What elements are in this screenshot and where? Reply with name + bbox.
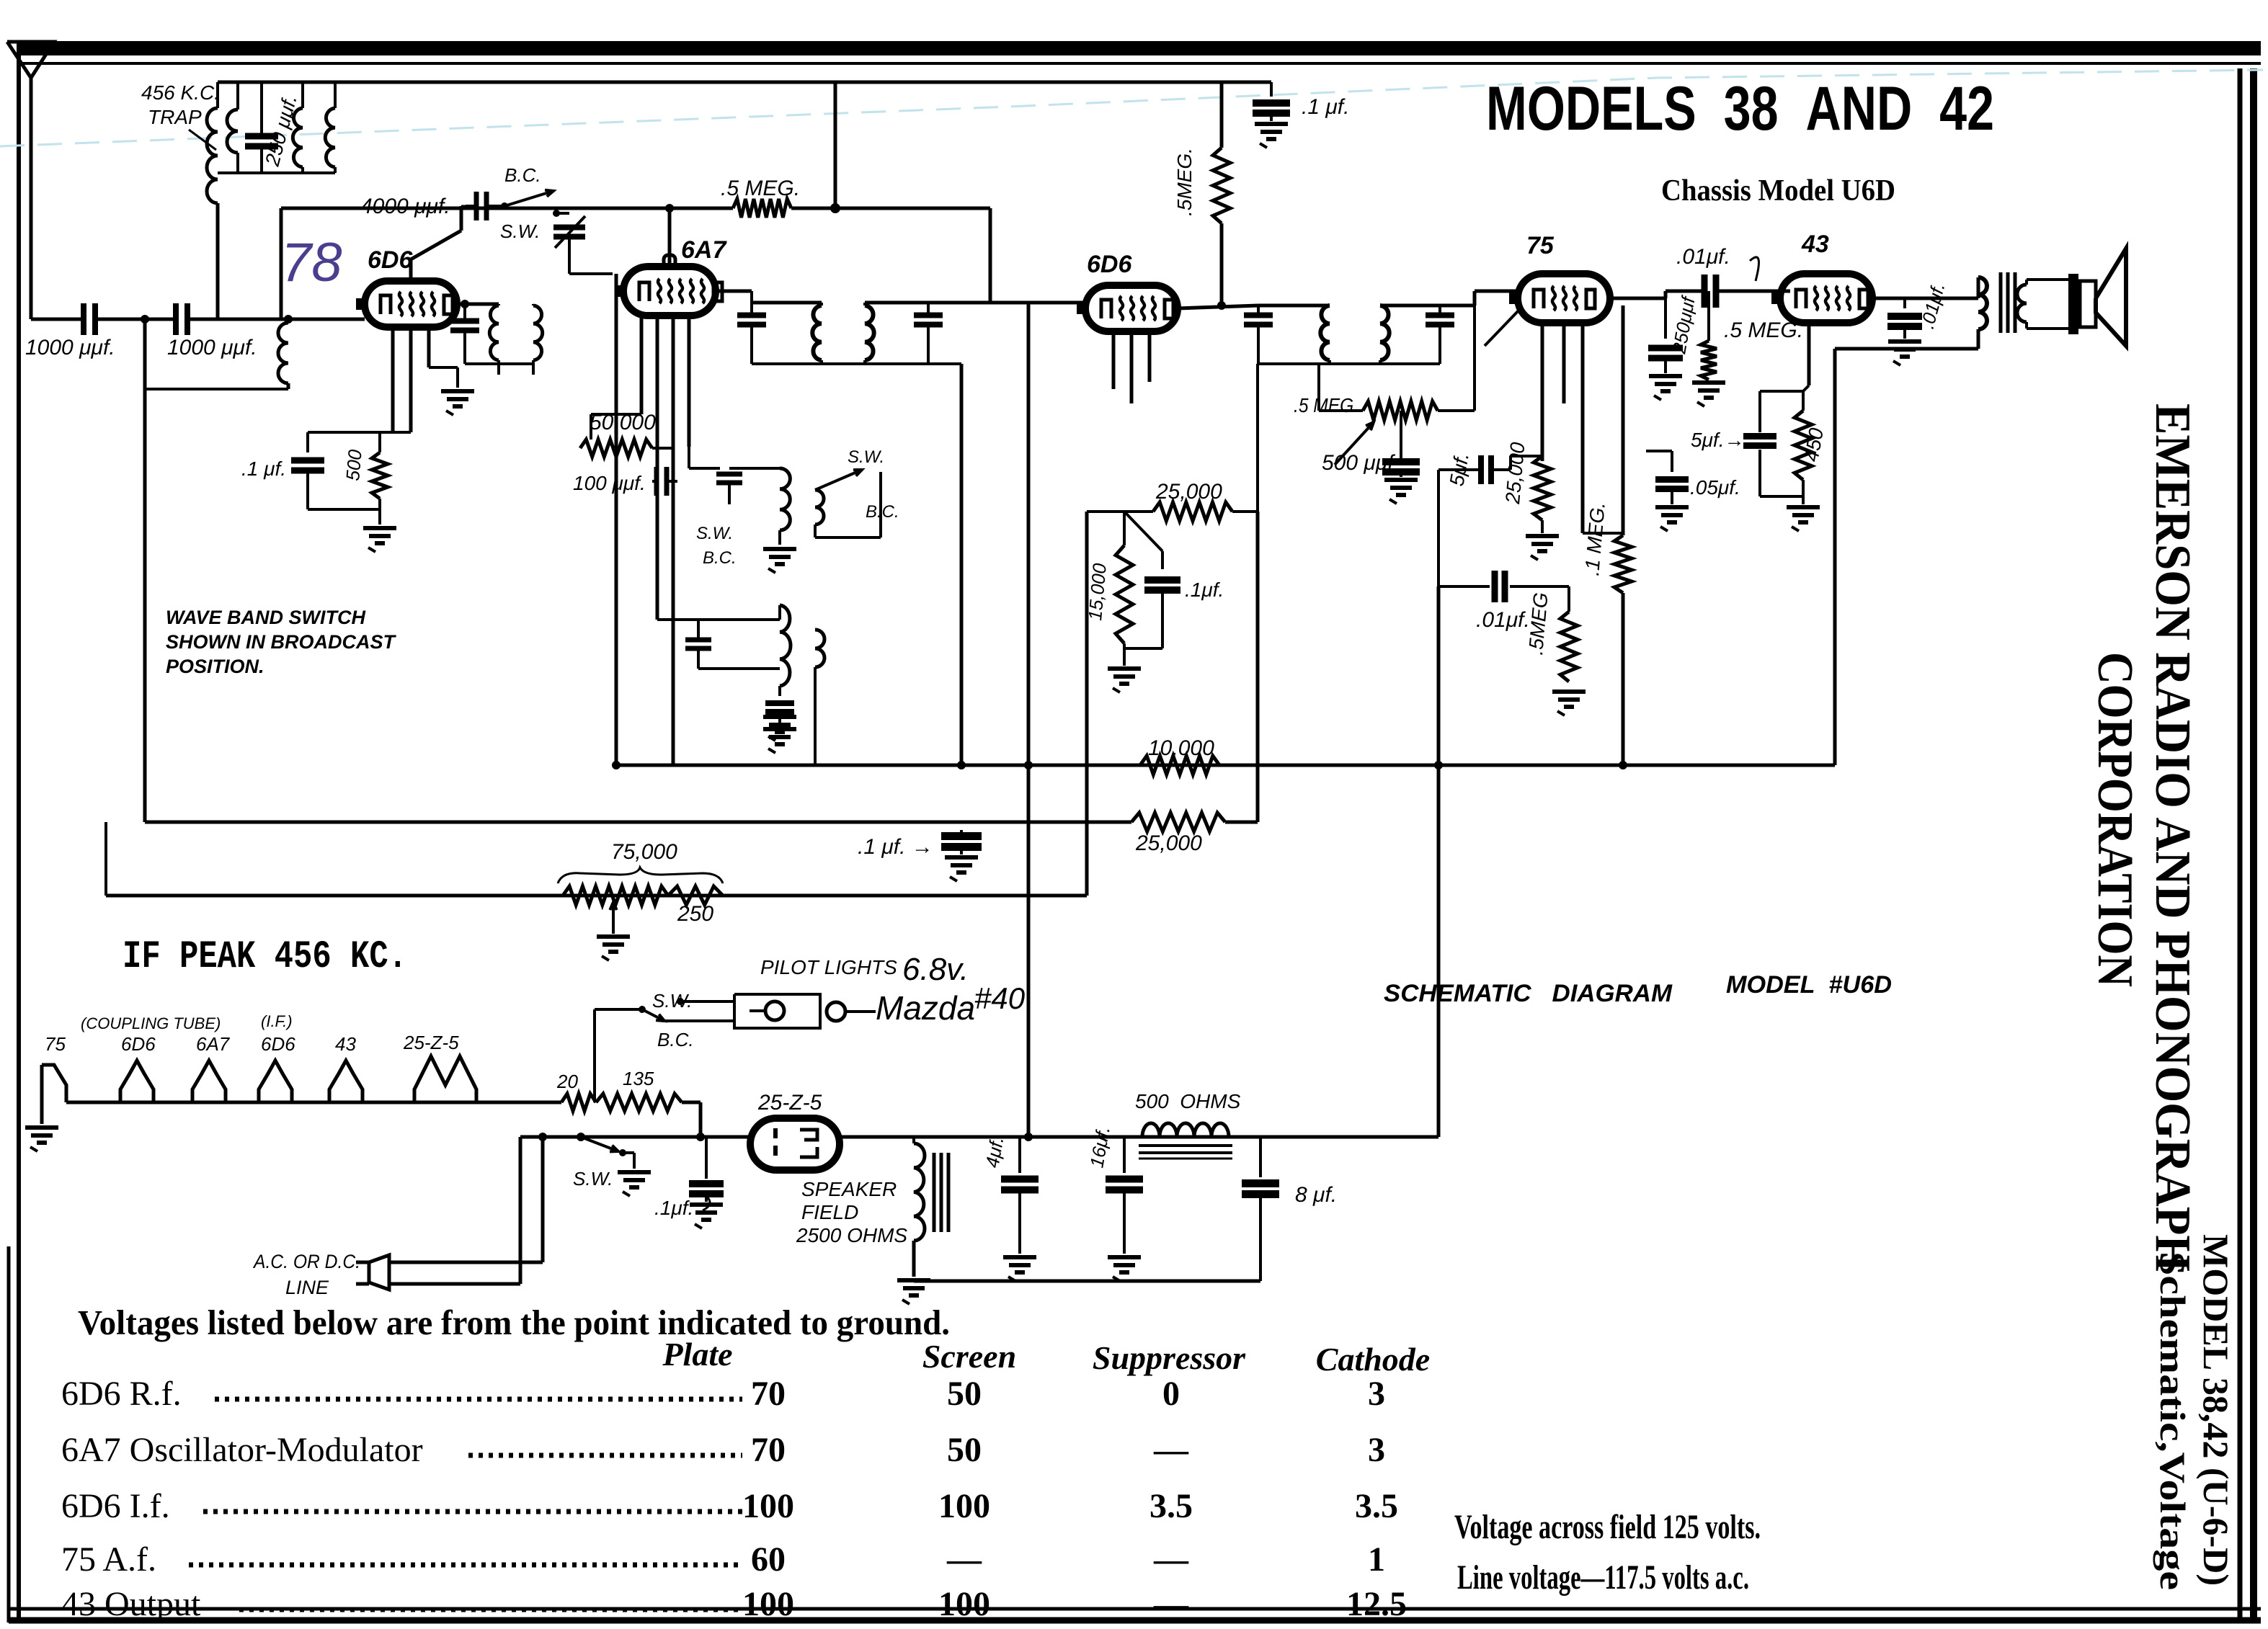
rail A y1062 <box>616 764 1835 767</box>
label .5MEG lower <box>1524 592 1552 656</box>
osc coil B <box>815 490 824 525</box>
svg-text:10,000: 10,000 <box>1148 736 1214 760</box>
resistor 50,000 <box>580 414 673 457</box>
svg-text:456 K.C.: 456 K.C. <box>141 81 220 104</box>
svg-text:70: 70 <box>751 1431 786 1469</box>
svg-text:75: 75 <box>1526 232 1555 259</box>
label 43 <box>1801 231 1829 258</box>
tube 6D6 IF <box>1077 285 1178 331</box>
label A.C. OR D.C. LINE <box>252 1251 360 1298</box>
svg-text:25-Z-5: 25-Z-5 <box>403 1032 459 1053</box>
svg-text:6D6: 6D6 <box>1087 251 1132 278</box>
svg-text:—: — <box>946 1540 982 1579</box>
wire .01 to 43 grid <box>1716 290 1790 293</box>
svg-text:25-Z-5: 25-Z-5 <box>757 1091 822 1115</box>
wire T3 to 75 grid <box>1440 291 1519 305</box>
svg-text:#40: #40 <box>974 981 1026 1015</box>
diode loop lower <box>1438 470 1490 586</box>
wire pot right up <box>1438 305 1475 411</box>
capacitor 100 uuf <box>652 467 677 496</box>
svg-text:250: 250 <box>677 902 713 926</box>
lower osc coil D <box>815 630 824 667</box>
label 250 uuf <box>261 92 301 169</box>
grid cap 4000 uuf label <box>360 195 470 218</box>
osc sw box cap <box>689 447 796 573</box>
vertical drop x1159 <box>834 82 837 208</box>
trap capacitor 250 uuf <box>245 82 278 173</box>
T2 cap right <box>914 303 943 364</box>
pilot switch arm <box>595 1006 734 1021</box>
table heading <box>78 1303 950 1342</box>
svg-text:25,000: 25,000 <box>1135 831 1202 855</box>
svg-text:.1μf.: .1μf. <box>654 1197 693 1219</box>
label PILOT LIGHTS 6.8v <box>760 952 969 987</box>
svg-text:6A7: 6A7 <box>196 1033 231 1055</box>
rail C y1243 <box>106 894 1087 898</box>
svg-text:EMERSON RADIO AND PHONOGRAPH: EMERSON RADIO AND PHONOGRAPH <box>2145 403 2200 1272</box>
trap coil L4 <box>325 82 335 167</box>
svg-text:B.C.: B.C. <box>703 548 737 568</box>
lower osc coil C <box>780 605 791 686</box>
antenna <box>7 42 54 319</box>
450 bypass loop <box>1760 391 1820 531</box>
pot 75000 tap <box>597 902 630 960</box>
svg-text:6A7: 6A7 <box>681 236 727 264</box>
text IF PEAK 456 KC. <box>123 935 407 979</box>
page border left inner lower <box>7 1246 11 1623</box>
svg-text:43 Output: 43 Output <box>61 1585 201 1623</box>
svg-text:MODEL #U6D: MODEL #U6D <box>1726 971 1892 999</box>
osc switch S.W. arrow <box>815 447 884 490</box>
6D6 RF cathode lead <box>380 327 393 432</box>
speaker field coil <box>914 1137 925 1277</box>
choke 500 ohms label <box>1135 1090 1241 1112</box>
label 500 uuf <box>1322 451 1395 475</box>
IF coil T2 primary <box>812 305 822 360</box>
IF coil T3 primary <box>1320 305 1330 360</box>
tube 25-Z-5 <box>750 1118 840 1170</box>
resistor .5MEG lower vertical <box>1552 586 1586 715</box>
filament 25-Z-5 double hump <box>414 1056 476 1102</box>
svg-text:.01μf.: .01μf. <box>1476 608 1530 632</box>
svg-text:MODEL 38,42 (U-6-D): MODEL 38,42 (U-6-D) <box>2196 1234 2236 1586</box>
rail grid y289 <box>281 208 733 319</box>
vertical text CORPORATION <box>2087 652 2143 987</box>
svg-text:100: 100 <box>938 1487 990 1525</box>
svg-text:50: 50 <box>947 1375 982 1413</box>
svg-text:75,000: 75,000 <box>611 840 677 864</box>
bottom rail y1778 <box>914 1280 1260 1283</box>
capacitor .1uf (15k) <box>1124 551 1180 648</box>
table row 6A7 Oscillator-Modulator <box>61 1431 1385 1469</box>
label 43 filament <box>335 1033 356 1055</box>
top rail y114 <box>218 81 1271 84</box>
AC riser x722 <box>519 1137 522 1284</box>
ground mid 1082 <box>763 717 796 741</box>
svg-text:IF PEAK 456 KC.: IF PEAK 456 KC. <box>123 935 407 979</box>
capacitor .1uf (line bypass) <box>689 1137 724 1228</box>
6D6 RF suppressor lead and ground <box>429 327 474 415</box>
wire 75 plate to .01 <box>1610 291 1704 298</box>
trap coil L1 <box>207 82 218 319</box>
wire C2 to 6D6 grid <box>187 318 365 321</box>
output transformer primary <box>1978 277 1987 349</box>
resistor 25000 vertical <box>1526 456 1559 560</box>
svg-text:B.C.: B.C. <box>657 1029 694 1050</box>
6A7 pin leads <box>641 316 689 764</box>
resistor .5 MEG (grid leak) <box>733 199 791 218</box>
svg-text:50,000: 50,000 <box>590 411 656 434</box>
label Mazda #40 <box>876 981 1026 1027</box>
label 6D6 filament b <box>261 1033 295 1055</box>
svg-text:FIELD: FIELD <box>801 1201 858 1223</box>
speaker horn <box>2096 249 2126 346</box>
label B.C. at osc switch <box>866 502 899 522</box>
switch arm B.C./S.W. <box>487 190 560 217</box>
T3 top wires <box>1178 305 1441 308</box>
wire 5uf loop <box>1511 456 1542 470</box>
label 50,000 <box>590 411 656 434</box>
trap coil L3 <box>293 82 303 167</box>
resistor 20 (ballast) <box>561 1094 596 1111</box>
note voltage across field <box>1454 1508 1761 1546</box>
subtitle Chassis Model U6D <box>1661 174 1895 207</box>
resistor 10,000 <box>1140 756 1219 775</box>
node Bline x1427 <box>1024 1133 1033 1141</box>
label .1uf (cathode) <box>241 458 286 480</box>
6D6 IF pin leads <box>1113 331 1149 403</box>
filament 75 hump <box>42 1065 66 1102</box>
T2 trimmer cap left <box>737 291 766 364</box>
svg-text:100: 100 <box>938 1585 990 1623</box>
svg-text:TRAP: TRAP <box>148 106 202 128</box>
resistor 25,000 (on rail B) <box>1131 813 1225 831</box>
page border right double <box>2240 68 2254 1623</box>
svg-text:PILOT LIGHTS: PILOT LIGHTS <box>760 956 897 978</box>
label 6D6 (RF) <box>368 246 413 274</box>
AC plug wire upper <box>389 1261 543 1264</box>
svg-text:—: — <box>1153 1431 1189 1469</box>
osc coil B bottom wire <box>815 472 881 537</box>
T3 cap right <box>1426 305 1454 364</box>
ballast tap riser <box>593 1009 596 1102</box>
coupling coil T1b <box>533 305 543 360</box>
tube 6D6 RF <box>356 281 457 327</box>
label 25,000 (rail B) <box>1135 831 1202 855</box>
svg-text:Line voltage—117.5 volts a.c.: Line voltage—117.5 volts a.c. <box>1457 1558 1749 1597</box>
svg-text:100: 100 <box>742 1487 794 1525</box>
svg-text:POSITION.: POSITION. <box>166 656 264 677</box>
capacitor .01 uf (diode) <box>1495 571 1505 602</box>
wire OT secondary return <box>1835 347 1978 351</box>
speaker driver <box>2027 274 2096 334</box>
pilot bulb 2 <box>827 1002 876 1021</box>
note line voltage <box>1457 1558 1749 1597</box>
svg-text:75 A.f.: 75 A.f. <box>61 1540 156 1579</box>
svg-text:135: 135 <box>623 1068 654 1089</box>
label .1 uf railB <box>858 835 933 859</box>
label 100 uuf <box>573 472 646 494</box>
ground 4uf <box>1003 1257 1036 1281</box>
label 1000 uuf (C1) <box>25 336 115 360</box>
svg-text:CORPORATION: CORPORATION <box>2087 652 2143 987</box>
svg-text:WAVE BAND SWITCH: WAVE BAND SWITCH <box>166 607 365 628</box>
T2 top wires <box>752 303 990 305</box>
svg-text:43: 43 <box>335 1033 356 1055</box>
svg-text:Chassis Model U6D: Chassis Model U6D <box>1661 174 1895 207</box>
svg-text:—: — <box>1153 1585 1189 1623</box>
node railA x1334 <box>957 761 966 769</box>
svg-text:8 μf.: 8 μf. <box>1295 1183 1337 1207</box>
svg-text:MODELS 38 AND 42: MODELS 38 AND 42 <box>1486 74 1994 143</box>
trap coil L2 <box>227 82 238 153</box>
wire T2 to 6D6 IF grid <box>990 301 1085 305</box>
text WAVE BAND SWITCH note <box>166 607 396 677</box>
page border top <box>19 41 2261 63</box>
resistor 135 (ballast) <box>596 1094 682 1111</box>
AC riser x753 <box>538 1133 547 1262</box>
resistor .1 MEG vertical <box>1614 305 1632 765</box>
resistor 450 vertical <box>1795 391 1812 496</box>
svg-text:60: 60 <box>751 1540 786 1579</box>
text MODEL #U6D <box>1726 971 1892 999</box>
label 20 <box>556 1071 578 1092</box>
label .01uf coupling <box>1676 245 1759 281</box>
label 75 <box>1526 232 1555 259</box>
antenna coil L5 <box>145 315 293 389</box>
label S.W. (pilot) <box>652 990 692 1012</box>
resistor 25,000 (plate feed) <box>1087 502 1258 521</box>
label 75 (filament) <box>45 1033 66 1055</box>
label 25,000 (plate feed) <box>1155 480 1222 504</box>
svg-text:70: 70 <box>751 1375 786 1413</box>
node railA x2252 <box>1619 761 1627 769</box>
svg-text:A.C. OR D.C.: A.C. OR D.C. <box>252 1251 360 1272</box>
svg-text:S.W.: S.W. <box>848 447 884 467</box>
label .1 uf (top) <box>1302 95 1349 119</box>
label 15,000 <box>1084 562 1111 621</box>
B+ vertical x2546 <box>1833 349 1837 765</box>
B minus line right <box>840 1135 1438 1139</box>
node at 1159,289 <box>830 203 840 213</box>
cap 5uf label <box>1445 451 1473 488</box>
label 25-Z-5 filament <box>403 1032 459 1053</box>
svg-text:6D6: 6D6 <box>121 1033 156 1055</box>
pilot light box <box>734 994 820 1028</box>
label 6A7 <box>681 236 727 264</box>
trap bottom wires <box>218 153 335 173</box>
rail B y1141 <box>145 821 1258 824</box>
label 250 (pot) <box>677 902 713 926</box>
6A7 plate wire right <box>716 290 752 293</box>
padder variable capacitor <box>553 213 585 259</box>
svg-text:2500 OHMS: 2500 OHMS <box>796 1224 907 1246</box>
resistor 75,000 pot <box>563 886 723 905</box>
resistor .5MEG vertical (AVC) <box>1213 82 1230 310</box>
choke core lines <box>1139 1146 1232 1159</box>
lower osc top wire <box>657 605 780 620</box>
svg-text:5μf.→: 5μf.→ <box>1691 429 1744 451</box>
table row 75 A.f. <box>61 1540 1385 1579</box>
svg-text:Voltage across field 125 volts: Voltage across field 125 volts. <box>1454 1508 1761 1546</box>
filament base wire <box>66 1101 561 1104</box>
capacitor 5 uf cathode <box>1743 437 1776 446</box>
svg-text:1000 μμf.: 1000 μμf. <box>167 336 257 360</box>
label 4 uf <box>981 1135 1008 1169</box>
label 25-Z-5 (tube) <box>757 1091 822 1115</box>
label SPEAKER FIELD 2500 OHMS <box>796 1178 907 1246</box>
choke 500 ohms coil <box>1142 1123 1229 1137</box>
table row 6D6 I.f. <box>61 1487 1398 1525</box>
label B.C. (osc switch) <box>504 164 541 186</box>
output transformer secondary <box>2017 280 2027 329</box>
label .5 MEG. (grid leak) <box>721 177 800 200</box>
svg-text:6D6 I.f.: 6D6 I.f. <box>61 1487 170 1525</box>
resistor .5 MEG (43 grid) <box>1692 291 1725 406</box>
AC plug wire lower <box>389 1282 520 1286</box>
label .01uf plate <box>1916 280 1949 331</box>
75 pin leads <box>1542 323 1583 533</box>
capacitor C2 1000 uuf <box>176 303 187 335</box>
filament 6D6b hump <box>259 1061 292 1102</box>
wire .05 stub <box>1646 450 1672 452</box>
svg-text:Cathode: Cathode <box>1316 1341 1430 1378</box>
tube 6A7 <box>615 255 722 316</box>
label 10,000 <box>1148 736 1214 760</box>
label (COUPLING TUBE) <box>81 1014 221 1032</box>
node railA x1996 <box>1434 761 1443 769</box>
wire cathode to .1MEG rail <box>1583 532 1623 535</box>
filament 6D6a hump <box>120 1061 154 1102</box>
wire 43 plate to OT <box>1872 297 1978 300</box>
vertical x147 railB to railC <box>104 822 107 896</box>
title MODELS 38 AND 42 <box>1486 74 1994 143</box>
IF coil T3 secondary <box>1380 305 1389 360</box>
cap 500uuf body <box>1382 411 1420 504</box>
label 6A7 filament <box>196 1033 231 1055</box>
label .01 uf (diode) <box>1476 608 1530 632</box>
svg-text:Plate: Plate <box>662 1336 732 1373</box>
svg-text:SCHEMATIC DIAGRAM: SCHEMATIC DIAGRAM <box>1384 980 1673 1007</box>
table col header Screen <box>922 1338 1016 1375</box>
capacitor .1 uf top right <box>1253 82 1290 148</box>
svg-text:Mazda: Mazda <box>876 989 975 1027</box>
svg-text:.1 μf.: .1 μf. <box>241 458 286 480</box>
svg-text:.1 μf.: .1 μf. <box>1302 95 1349 119</box>
B minus line left <box>520 1135 750 1139</box>
pot brace 75000 <box>558 867 723 883</box>
label 8 uf <box>1295 1183 1337 1207</box>
label 450 <box>1800 426 1828 463</box>
capacitor 8 uf <box>1242 1137 1279 1281</box>
wire 25k to T3 <box>1256 364 1259 512</box>
table col header Cathode <box>1316 1341 1430 1378</box>
resistor 15,000 vertical <box>1108 512 1141 692</box>
grid capacitor 4000 uuf <box>476 192 486 220</box>
node railA x1427 <box>1024 761 1033 769</box>
svg-text:.5MEG.: .5MEG. <box>1173 148 1196 216</box>
svg-text:.05μf.: .05μf. <box>1690 476 1740 499</box>
power switch S.W. <box>573 1133 651 1196</box>
lower osc cap <box>685 620 780 669</box>
wire .5meg to corner x1374 <box>791 208 990 303</box>
svg-text:.5 MEG.: .5 MEG. <box>721 177 800 200</box>
capacitor 5 uf <box>1475 455 1511 484</box>
wire 6D6 grid to 4000uuf <box>411 206 476 281</box>
wire T2 bottom to x1334 <box>928 364 961 765</box>
label 1000 uuf (C2) <box>167 336 257 360</box>
capacitor .01 uf coupling <box>1704 275 1716 308</box>
svg-text:.1μf.: .1μf. <box>1185 579 1224 601</box>
label 500 (cathode) <box>342 448 366 481</box>
svg-text:(I.F.): (I.F.) <box>261 1012 293 1030</box>
capacitor .1uf on railB <box>941 830 982 881</box>
label 78 (blue pencil) <box>281 232 342 293</box>
svg-text:3: 3 <box>1368 1375 1385 1413</box>
node 2311 drop <box>1664 291 1667 339</box>
svg-text:S.W.: S.W. <box>696 524 733 543</box>
B plus riser x1996 <box>1437 586 1441 1137</box>
T2 bottom wires <box>752 360 928 364</box>
page border bottom double <box>9 1609 2261 1620</box>
capacitor 250 uuf (43 grid) <box>1648 348 1683 400</box>
scanner blue line <box>0 70 2263 146</box>
label 6D6 (IF) <box>1087 251 1132 278</box>
table row 43 Output <box>61 1585 1407 1623</box>
filament ground <box>25 1065 58 1151</box>
label S.W. small <box>696 524 733 543</box>
table row 6D6 R.f. <box>61 1375 1385 1413</box>
svg-text:Voltages listed below are from: Voltages listed below are from the point… <box>78 1303 950 1342</box>
label 6D6 filament a <box>121 1033 156 1055</box>
svg-text:6D6: 6D6 <box>368 246 413 274</box>
padder to osc coil wire <box>569 259 613 274</box>
capacitor 4 uf <box>1001 1137 1039 1254</box>
label 135 <box>623 1068 654 1089</box>
filament 43 hump <box>329 1061 363 1102</box>
svg-text:78: 78 <box>281 232 342 293</box>
svg-text:75: 75 <box>45 1033 66 1055</box>
svg-text:S.W.: S.W. <box>573 1168 613 1190</box>
vertical x855 from osc <box>612 274 621 769</box>
svg-text:20: 20 <box>556 1071 578 1092</box>
lower osc cap2 and ground <box>763 686 796 753</box>
svg-text:.5 MEG.: .5 MEG. <box>1294 394 1358 416</box>
svg-text:SHOWN IN BROADCAST: SHOWN IN BROADCAST <box>166 631 396 653</box>
filament 6A7 hump <box>192 1061 226 1102</box>
table col header Plate <box>662 1336 732 1373</box>
T3 bottom wires <box>1258 360 1440 364</box>
svg-text:6D6: 6D6 <box>261 1033 295 1055</box>
output transformer core <box>2001 272 2015 333</box>
label 75,000 <box>611 840 677 864</box>
label (I.F.) <box>261 1012 293 1030</box>
label .1 uf (15k) <box>1185 579 1224 601</box>
pilot bulb 1 <box>750 1001 784 1020</box>
capacitor C1 1000 uuf <box>84 303 95 335</box>
label 25,000 vertical <box>1501 441 1529 505</box>
svg-text:12.5: 12.5 <box>1346 1585 1407 1623</box>
lower osc coil D bottom <box>814 667 817 764</box>
svg-text:0: 0 <box>1162 1375 1180 1413</box>
osc coil A top wire <box>729 467 780 470</box>
vertical text Schematic,Voltage <box>2153 1251 2193 1590</box>
svg-text:.1 μf. →: .1 μf. → <box>858 835 933 859</box>
wire antenna to C1 <box>31 318 84 321</box>
label 16 uf <box>1085 1125 1114 1169</box>
wire pot left to T3 bottom <box>1258 364 1319 411</box>
svg-text:SPEAKER: SPEAKER <box>801 1178 897 1200</box>
